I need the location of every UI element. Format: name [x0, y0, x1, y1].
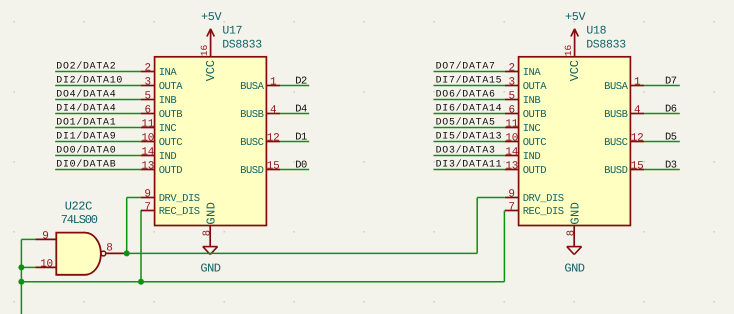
U17 pin 10 OUTC wire+label DI1/DATA9	[55, 141, 141, 143]
svg-text:DO0/DATA0: DO0/DATA0	[56, 145, 116, 156]
svg-text:DI6/DATA14: DI6/DATA14	[436, 103, 503, 114]
svg-text:11: 11	[141, 119, 154, 131]
svg-text:D7: D7	[665, 76, 677, 88]
U17 pin 16 VCC + +5V power symbol	[210, 29, 212, 57]
U18 pin 4 BUSB wire+label D6	[630, 113, 644, 115]
svg-text:D4: D4	[295, 104, 307, 116]
svg-text:9: 9	[144, 189, 151, 201]
wire: U17 REC_DIS riser	[140, 211, 142, 282]
wire: vertical from gate input 9 down past input 10 to bottom edge	[20, 239, 22, 314]
svg-text:10: 10	[505, 133, 518, 145]
svg-text:INB: INB	[159, 95, 177, 107]
svg-text:2: 2	[509, 63, 515, 75]
svg-text:D2: D2	[295, 76, 307, 88]
svg-text:DRV_DIS: DRV_DIS	[159, 193, 200, 205]
svg-text:U17: U17	[222, 25, 242, 38]
U22C input pin 9	[35, 238, 56, 240]
svg-text:BUSC: BUSC	[240, 137, 264, 149]
svg-text:OUTA: OUTA	[523, 81, 548, 93]
svg-text:U22C: U22C	[65, 199, 92, 213]
U17 pin 13 OUTD wire+label DI0/DATAB	[55, 169, 141, 171]
svg-text:8: 8	[202, 230, 214, 236]
NAND gate U22C 74LS00 body	[56, 233, 101, 275]
svg-text:14: 14	[505, 147, 518, 159]
svg-text:DI5/DATA13: DI5/DATA13	[436, 131, 503, 142]
U22C output pin 8	[106, 252, 124, 254]
U18 pin 1 BUSA wire+label D7	[630, 85, 644, 87]
U17 pin 5 INB wire+label DO4/DATA4	[55, 99, 141, 101]
U18 pin 5 INB wire+label DO6/DATA6	[434, 99, 505, 101]
svg-text:OUTB: OUTB	[523, 109, 547, 121]
svg-text:DI4/DATA4: DI4/DATA4	[56, 103, 116, 114]
svg-text:1: 1	[634, 77, 641, 89]
svg-text:6: 6	[509, 105, 515, 117]
svg-text:OUTA: OUTA	[159, 81, 184, 93]
U18 pin 8 GND + ground symbol	[573, 226, 575, 247]
IC U17 DS8833 body	[155, 57, 267, 226]
U18 pin 12 BUSC wire+label D5	[630, 141, 644, 143]
svg-text:DS8833: DS8833	[586, 39, 626, 52]
wire: bottom rail REC_DIS net	[21, 281, 504, 283]
svg-text:OUTC: OUTC	[523, 137, 547, 149]
svg-text:GND: GND	[564, 261, 584, 275]
svg-text:DS8833: DS8833	[222, 39, 262, 52]
svg-text:DO3/DATA3: DO3/DATA3	[436, 145, 496, 156]
svg-text:D6: D6	[665, 104, 677, 116]
svg-text:U18: U18	[586, 25, 606, 38]
U18 pin 6 OUTB wire+label DI6/DATA14	[434, 113, 505, 115]
svg-text:DO5/DATA5: DO5/DATA5	[436, 117, 496, 128]
svg-text:12: 12	[631, 133, 644, 145]
svg-text:OUTB: OUTB	[159, 109, 183, 121]
svg-text:DO6/DATA6: DO6/DATA6	[436, 89, 496, 100]
svg-text:IND: IND	[159, 151, 177, 163]
svg-text:INA: INA	[523, 67, 542, 79]
svg-text:DI7/DATA15: DI7/DATA15	[436, 75, 503, 86]
svg-text:4: 4	[270, 105, 277, 117]
svg-text:16: 16	[563, 44, 574, 56]
svg-text:13: 13	[505, 161, 518, 173]
svg-text:BUSD: BUSD	[604, 165, 628, 177]
svg-text:INC: INC	[159, 123, 177, 135]
svg-text:BUSA: BUSA	[240, 81, 265, 93]
U17 pin 12 BUSC wire+label D1	[266, 141, 280, 143]
junction at gate pin 10	[18, 264, 24, 270]
svg-text:5: 5	[509, 91, 515, 103]
svg-text:INC: INC	[523, 123, 541, 135]
U17 pin 2 INA wire+label DO2/DATA2	[55, 71, 141, 73]
svg-text:74LS00: 74LS00	[61, 213, 98, 227]
wire: U18 DRV_DIS horizontal	[477, 197, 504, 199]
wire: gate pin 10 horizontal	[21, 266, 35, 268]
U17 pin 14 IND wire+label DO0/DATA0	[55, 155, 141, 157]
svg-text:BUSC: BUSC	[604, 137, 628, 149]
svg-text:8: 8	[566, 230, 578, 236]
U17 pin 1 BUSA wire+label D2	[266, 85, 280, 87]
svg-text:DO7/DATA7: DO7/DATA7	[436, 61, 496, 72]
svg-text:BUSB: BUSB	[240, 109, 264, 121]
svg-text:15: 15	[267, 161, 280, 173]
svg-text:GND: GND	[200, 261, 220, 275]
svg-text:REC_DIS: REC_DIS	[523, 206, 564, 218]
U17 pin 11 INC wire+label DO1/DATA1	[55, 127, 141, 129]
wire: U18 DRV_DIS riser	[476, 198, 478, 254]
svg-text:1: 1	[270, 77, 277, 89]
svg-text:7: 7	[144, 202, 151, 214]
U22C output bubble	[101, 251, 106, 256]
svg-text:9: 9	[508, 189, 515, 201]
U18 pin 15 BUSD wire+label D3	[630, 169, 644, 171]
svg-text:GND: GND	[568, 202, 582, 225]
U18 pin 3 OUTA wire+label DI7/DATA15	[434, 85, 505, 87]
svg-text:BUSA: BUSA	[604, 81, 629, 93]
U17 pin 15 BUSD wire+label D0	[266, 169, 280, 171]
U17 pin 3 OUTA wire+label DI2/DATA10	[55, 85, 141, 87]
svg-text:3: 3	[145, 77, 151, 89]
U17 pin 8 GND + ground symbol	[209, 226, 211, 247]
svg-text:BUSD: BUSD	[240, 165, 264, 177]
svg-text:2: 2	[145, 63, 151, 75]
svg-text:13: 13	[141, 161, 154, 173]
svg-text:VCC: VCC	[204, 60, 218, 81]
U18 pin 2 INA wire+label DO7/DATA7	[434, 71, 505, 73]
svg-text:16: 16	[199, 44, 210, 56]
svg-text:D5: D5	[665, 132, 677, 144]
svg-text:7: 7	[508, 202, 515, 214]
U17 pin 7 REC_DIS stub	[141, 210, 155, 212]
svg-text:D1: D1	[295, 132, 307, 144]
svg-text:11: 11	[505, 119, 518, 131]
svg-text:DRV_DIS: DRV_DIS	[523, 193, 564, 205]
svg-text:DI1/DATA9: DI1/DATA9	[56, 131, 116, 142]
svg-text:12: 12	[267, 133, 280, 145]
svg-text:15: 15	[631, 161, 644, 173]
svg-text:9: 9	[42, 230, 49, 242]
svg-text:GND: GND	[204, 202, 218, 225]
svg-text:D3: D3	[665, 160, 677, 172]
svg-text:IND: IND	[523, 151, 541, 163]
svg-text:INA: INA	[159, 67, 178, 79]
svg-text:BUSB: BUSB	[604, 109, 628, 121]
junction at U17 DRV_DIS riser	[124, 250, 130, 256]
svg-text:3: 3	[509, 77, 515, 89]
svg-text:D0: D0	[295, 160, 307, 172]
svg-text:+5V: +5V	[565, 10, 587, 24]
svg-text:DO2/DATA2: DO2/DATA2	[56, 61, 116, 72]
svg-text:5: 5	[145, 91, 151, 103]
U22C input pin 10	[35, 266, 56, 268]
svg-text:OUTC: OUTC	[159, 137, 183, 149]
U18 pin 9 DRV_DIS stub	[505, 197, 519, 199]
U18 pin 13 OUTD wire+label DI3/DATA11	[434, 169, 505, 171]
svg-text:4: 4	[634, 105, 641, 117]
junction at bottom-left rail	[18, 279, 24, 285]
svg-text:OUTD: OUTD	[523, 165, 547, 177]
IC U18 DS8833 body	[519, 57, 631, 226]
junction at U17 REC_DIS riser	[138, 279, 144, 285]
svg-text:8: 8	[106, 242, 113, 254]
svg-text:INB: INB	[523, 95, 541, 107]
U18 pin 16 VCC + +5V power symbol	[574, 29, 576, 57]
wire: gate pin 9 horizontal	[21, 238, 35, 240]
wire: U18 REC_DIS riser	[503, 211, 505, 282]
svg-text:+5V: +5V	[201, 10, 223, 24]
U18 pin 11 INC wire+label DO5/DATA5	[434, 127, 505, 129]
svg-text:DI0/DATAB: DI0/DATAB	[56, 159, 116, 170]
U17 pin 6 OUTB wire+label DI4/DATA4	[55, 113, 141, 115]
svg-text:10: 10	[141, 133, 154, 145]
svg-text:REC_DIS: REC_DIS	[159, 206, 200, 218]
U18 pin 14 IND wire+label DO3/DATA3	[434, 155, 505, 157]
svg-text:DO1/DATA1: DO1/DATA1	[56, 117, 116, 128]
svg-text:VCC: VCC	[568, 60, 582, 81]
U17 pin 9 DRV_DIS stub	[141, 197, 155, 199]
U18 pin 10 OUTC wire+label DI5/DATA13	[434, 141, 505, 143]
svg-text:DI3/DATA11: DI3/DATA11	[436, 159, 503, 170]
svg-text:DO4/DATA4: DO4/DATA4	[56, 89, 116, 100]
svg-text:6: 6	[145, 105, 151, 117]
U17 pin 4 BUSB wire+label D4	[266, 113, 280, 115]
svg-text:OUTD: OUTD	[159, 165, 183, 177]
svg-text:DI2/DATA10: DI2/DATA10	[56, 75, 123, 86]
svg-text:10: 10	[40, 258, 53, 270]
wire: gate output rail DRV_DIS net	[124, 252, 477, 254]
wire: U17 DRV_DIS horizontal	[127, 197, 141, 199]
svg-text:14: 14	[141, 147, 154, 159]
U18 pin 7 REC_DIS stub	[505, 210, 519, 212]
wire: U17 DRV_DIS riser	[126, 198, 128, 254]
